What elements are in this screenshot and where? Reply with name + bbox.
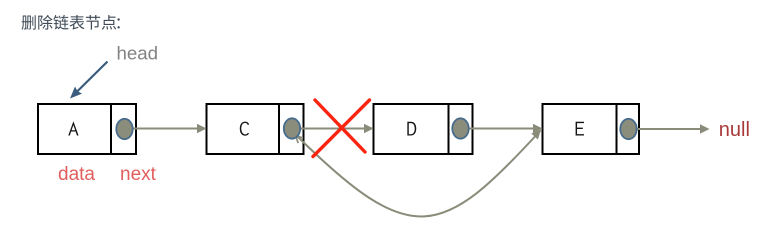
- svg-text:head: head: [117, 43, 159, 64]
- svg-text:data: data: [58, 164, 95, 185]
- svg-text:null: null: [719, 119, 750, 141]
- svg-text:next: next: [120, 164, 157, 185]
